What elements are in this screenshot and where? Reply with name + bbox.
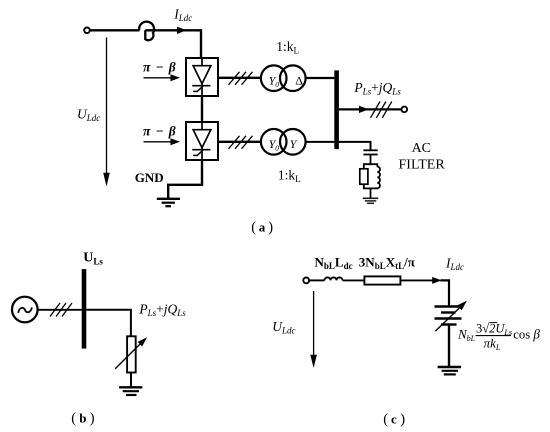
terminal (c) [303, 278, 309, 284]
ground (c) [438, 367, 461, 374]
wire valve V2 to ground [168, 160, 202, 198]
three-phase slashes (row 1) [229, 72, 253, 85]
thyristor valve V2 [186, 122, 218, 160]
caption (b) [71, 411, 95, 427]
resistor 3NbL XtL/pi [364, 276, 400, 284]
AC bus bar (a) [334, 70, 339, 149]
svg-text:): ) [268, 220, 273, 236]
wire load to ground [130, 373, 132, 388]
AC source G1 [12, 297, 38, 323]
svg-text:π − β: π − β [143, 123, 176, 138]
svg-text:): ) [400, 412, 405, 428]
svg-text:Δ: Δ [295, 74, 303, 88]
svg-text:a: a [259, 220, 266, 235]
wire reactor to corner, down to valve V1 [145, 30, 201, 59]
terminal (a) DC input [84, 28, 90, 34]
U_Ldc measuring arrow (c) [310, 291, 317, 368]
wire valve V1 to transformer T1 [218, 77, 261, 79]
wire valve V2 to transformer T2 [218, 141, 261, 143]
AC filter R-L parallel branch [360, 164, 380, 198]
transformer T1 (Y0/D) [261, 65, 306, 91]
three-phase slashes (output) [371, 102, 392, 118]
ground (b) [119, 387, 142, 395]
svg-text:cos β: cos β [513, 327, 540, 342]
wire battery to ground [448, 325, 450, 367]
three-phase slashes (row 2) [229, 136, 253, 149]
svg-text:c: c [391, 412, 397, 427]
svg-text:GND: GND [135, 170, 164, 185]
caption (c) [383, 412, 405, 428]
transformer T2 (Y0/Y) [261, 129, 306, 155]
wire transformer T2 through bus to AC filter [306, 142, 371, 150]
three-phase slashes (b) [50, 303, 72, 317]
variable DC source (battery) [435, 301, 467, 332]
terminal (a) AC output [402, 107, 408, 113]
wire transformer T1 to bus [306, 77, 335, 79]
current arrow I_Ldc [177, 27, 187, 34]
svg-text:3NbLXtL/π: 3NbLXtL/π [359, 254, 415, 271]
bus bar (b) [82, 269, 87, 349]
AC filter capacitor [363, 150, 377, 164]
svg-text:(: ( [251, 220, 256, 236]
wire terminal to inductor [309, 279, 324, 281]
thyristor valve V1 [186, 58, 218, 96]
wire resistor to corner with current arrow [400, 277, 449, 306]
wire inductor to resistor [343, 279, 365, 281]
firing angle arrow (lower) [144, 138, 181, 145]
inductor NbL.Ldc [325, 277, 343, 280]
label NbL 3sqrt2 ULs / pi kL cos beta [457, 321, 540, 352]
svg-text:AC: AC [412, 141, 431, 156]
svg-text:(: ( [383, 412, 388, 428]
ground (AC filter) [363, 198, 379, 203]
svg-text:b: b [79, 411, 86, 426]
smoothing reactor Ldc (wire loop) [139, 22, 154, 41]
ground (valve side) [157, 199, 180, 206]
svg-text:): ) [90, 411, 95, 427]
variable load resistor (b) [115, 336, 147, 372]
U_Ldc measuring arrow (a) [103, 38, 110, 187]
wire terminal to reactor [90, 29, 140, 31]
svg-text:π − β: π − β [143, 59, 176, 74]
wire bus to load [86, 310, 131, 337]
firing angle arrow (upper) [144, 74, 181, 81]
output wire with arrow [339, 106, 402, 113]
wire source to bus [38, 309, 82, 311]
caption (a) [251, 220, 273, 236]
svg-text:FILTER: FILTER [399, 158, 446, 173]
wire valve V1 to valve V2 [201, 96, 203, 122]
svg-text:(: ( [71, 411, 76, 427]
